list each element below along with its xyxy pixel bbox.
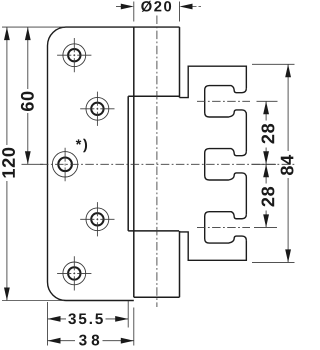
- claw 1 profile: [205, 86, 247, 117]
- frame part bottom spine: [180, 232, 247, 260]
- dimension 35.5 arrow left: [48, 316, 61, 322]
- frame right edge between claw 2 and claw 3: [245, 178, 247, 215]
- dimension 28 middle tick: [252, 163, 277, 165]
- dimension 60 line: [27, 27, 29, 164]
- claw 3 center line: [197, 226, 250, 228]
- dimension Ø20 label: [141, 1, 171, 12]
- dimension 84 arrow bottom: [285, 249, 291, 262]
- dimension 35.5 line: [48, 318, 129, 320]
- dimension 84 arrow top: [285, 64, 291, 77]
- barrel right edge lower: [179, 231, 181, 297]
- claw 2 profile: [205, 149, 247, 180]
- dimension 84 label: [281, 155, 294, 175]
- screw hole 5 crosshair: [57, 256, 91, 290]
- dimension 28 lower arrow top: [263, 164, 269, 177]
- dimension 84 extension top: [252, 63, 295, 65]
- screw hole 3 (pivot) outer: [52, 152, 77, 177]
- dimension 38 arrow left: [48, 338, 61, 344]
- dimension 35.5 label: [68, 313, 103, 324]
- claw 1 center line: [197, 100, 250, 102]
- dimension 28 lower label: [261, 187, 274, 207]
- dimension 120 label: [2, 148, 15, 178]
- dimension 38 arrow right: [121, 338, 134, 344]
- screw hole 4 inner: [91, 213, 103, 225]
- screw hole 4 outer: [86, 208, 109, 231]
- screw hole 2 inner: [91, 103, 103, 115]
- claw 3 profile: [205, 212, 247, 243]
- dimension 84 line: [287, 64, 289, 262]
- barrel left edge: [133, 27, 135, 297]
- frame part knuckle housing (wider section): [128, 96, 179, 231]
- dimension 60 label: [21, 92, 34, 111]
- hinge leaf plate outline: [47, 27, 179, 300]
- dimension 28 top tick: [257, 100, 278, 102]
- dimension 28 lower line: [265, 164, 267, 227]
- dimension 60 extension bottom tick: [22, 163, 44, 165]
- screw hole 1 inner: [68, 49, 80, 61]
- dimension 38 label: [79, 335, 99, 346]
- barrel bottom edge: [134, 296, 180, 298]
- dimension Ø20 arrow left: [121, 4, 134, 10]
- middle horizontal center line: [40, 163, 295, 165]
- dimension Ø20 leader left: [116, 6, 131, 8]
- screw hole 1 crosshair: [57, 38, 91, 72]
- dimension 28 bottom tick: [254, 226, 277, 228]
- barrel vertical center line: [156, 16, 158, 308]
- dimension 28 upper arrow bottom: [263, 151, 269, 164]
- screw hole 5 inner: [68, 267, 80, 279]
- dimension 120 line: [6, 27, 8, 300]
- dimension 35.5 arrow right: [115, 316, 128, 322]
- frame part top spine: [180, 66, 247, 97]
- screw hole 2 outer: [86, 97, 109, 120]
- barrel right edge upper: [179, 27, 181, 98]
- dimension 28 upper line: [265, 101, 267, 164]
- frame right edge between claw 1 and claw 2: [245, 115, 247, 152]
- dimension 38 line: [48, 340, 134, 342]
- dimension 120 extension top: [2, 26, 64, 28]
- screw hole 1 outer: [63, 44, 86, 67]
- dimension 60 arrow bottom: [25, 151, 31, 164]
- screw hole 2 crosshair: [80, 92, 114, 126]
- screw hole 4 crosshair: [80, 202, 114, 236]
- dimension 28 lower arrow bottom: [263, 214, 269, 227]
- dimension 35.5 extension right: [127, 301, 129, 328]
- dimension 120 arrow top: [4, 27, 10, 40]
- dimension 38 extension left: [47, 302, 49, 346]
- dimension 60 arrow top: [25, 27, 31, 40]
- screw hole 5 outer: [63, 262, 86, 285]
- dimension 28 upper arrow top: [263, 101, 269, 114]
- screw hole 3 (pivot) inner: [58, 158, 72, 172]
- dimension 84 extension bottom: [252, 261, 295, 263]
- dimension 28 upper label: [261, 124, 274, 144]
- dimension Ø20 leader right: [182, 6, 201, 8]
- dimension 120 arrow bottom: [4, 288, 10, 301]
- dimension Ø20 arrow right: [180, 4, 193, 10]
- dimension Ø20 extension lines: [134, 2, 180, 22]
- dimension 120 extension bottom: [2, 300, 64, 302]
- dimension 38 extension right: [133, 308, 135, 346]
- footnote marker: [76, 139, 87, 153]
- screw hole 3 vertical crosshair: [64, 148, 66, 182]
